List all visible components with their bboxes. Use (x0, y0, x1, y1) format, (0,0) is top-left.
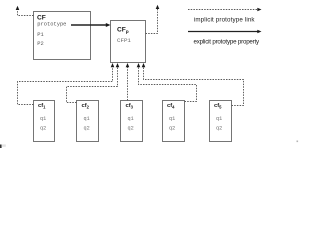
svg-text:cf5: cf5 (214, 103, 222, 109)
svg-text:cf3: cf3 (126, 103, 134, 109)
implicit prototype link cf4 -> CFp (137, 63, 197, 102)
svg-text:P2: P2 (37, 41, 43, 47)
svg-text:CF: CF (37, 15, 46, 22)
implicit prototype link cf2 -> CFp (67, 63, 120, 103)
box cf2 (77, 101, 99, 142)
box CF (constructor function) (34, 12, 91, 60)
svg-text:cf4: cf4 (167, 103, 175, 109)
svg-text:implicit prototype link: implicit prototype link (194, 17, 256, 24)
box cf5 (210, 101, 232, 142)
svg-text:P1: P1 (37, 32, 43, 38)
stray page artifact bottom-right (297, 141, 299, 143)
box cf3 (121, 101, 143, 142)
implicit prototype link cf5 -> CFp (142, 63, 244, 106)
svg-text:cf2: cf2 (82, 103, 90, 109)
svg-text:q2: q2 (128, 126, 134, 132)
implicit prototype link cf1 -> CFp (18, 63, 115, 105)
svg-text:q2: q2 (84, 126, 90, 132)
explicit prototype property arrow CF.prototype -> CFp (71, 23, 111, 27)
box cf1 (34, 101, 55, 142)
svg-text:q1: q1 (128, 116, 134, 122)
svg-text:q2: q2 (216, 126, 222, 132)
legend: implicit prototype link sample arrow (188, 8, 262, 24)
stray page artifact bottom-left (0, 145, 2, 149)
box CFp (CF prototype object) (111, 21, 146, 63)
svg-text:q1: q1 (40, 116, 46, 122)
implicit prototype link cf3 -> CFp (126, 63, 130, 101)
svg-text:CFP1: CFP1 (117, 37, 131, 44)
svg-text:q2: q2 (169, 126, 175, 132)
implicit prototype link from CFp upward (off diagram) (146, 5, 160, 34)
svg-text:q1: q1 (216, 116, 222, 122)
svg-text:explicit prototype property: explicit prototype property (194, 39, 261, 46)
svg-text:prototype: prototype (37, 22, 66, 28)
svg-text:q2: q2 (40, 126, 46, 132)
svg-text:q1: q1 (169, 116, 175, 122)
implicit prototype link from CF upward (off diagram) (16, 6, 34, 16)
legend: explicit prototype property sample arrow (188, 30, 262, 46)
box cf4 (163, 101, 185, 142)
svg-text:cf1: cf1 (38, 103, 46, 109)
svg-text:q1: q1 (84, 116, 90, 122)
